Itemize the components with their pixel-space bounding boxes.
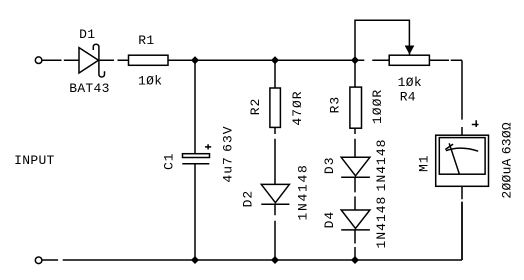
diode D1 (79, 44, 105, 77)
resistor R3 (354, 60, 356, 87)
svg-text:D2: D2 (241, 190, 256, 208)
svg-text:D3: D3 (322, 156, 337, 174)
svg-text:1N4148: 1N4148 (295, 163, 310, 220)
wire (42, 59, 79, 61)
svg-text:INPUT: INPUT (14, 153, 55, 168)
bottom rail wire (42, 202, 462, 260)
svg-text:47ØR: 47ØR (290, 90, 305, 125)
wire wiper loop (355, 20, 409, 60)
wire (100, 59, 129, 61)
node junction 5 (272, 257, 279, 264)
svg-text:1ØØR: 1ØØR (370, 89, 385, 124)
diode D3 (341, 157, 370, 177)
wire (355, 59, 389, 61)
svg-text:C1: C1 (162, 152, 177, 170)
node junction 6 (352, 257, 359, 264)
svg-text:2ØØuA 63ØΩ: 2ØØuA 63ØΩ (500, 122, 515, 199)
svg-text:D4: D4 (322, 211, 337, 229)
svg-text:R3: R3 (327, 96, 342, 114)
wire down to meter (461, 60, 463, 135)
potentiometer R4 wiper arrow (406, 46, 413, 53)
svg-text:M1: M1 (416, 154, 431, 172)
plus sign M1 (472, 120, 479, 127)
svg-text:D1: D1 (79, 27, 95, 42)
meter M1 (436, 135, 489, 186)
input terminal top (35, 57, 42, 64)
svg-text:1Øk: 1Øk (138, 74, 162, 89)
diode D2 (261, 184, 289, 204)
capacitor C1 (182, 60, 209, 260)
potentiometer R4 body (389, 55, 429, 65)
plus sign C1 (205, 144, 211, 149)
svg-text:1N4148 1N4148: 1N4148 1N4148 (374, 139, 389, 249)
node junction 1 (192, 57, 199, 64)
svg-text:4u7 63V: 4u7 63V (221, 125, 236, 182)
node junction 2 (272, 57, 279, 64)
node junction 3 (352, 57, 359, 64)
resistor R2 (274, 60, 276, 88)
input terminal bottom (35, 257, 42, 264)
node junction 4 (192, 257, 199, 264)
diode D4 (341, 210, 370, 230)
resistor R1 (129, 55, 169, 65)
wire meter bottom (461, 186, 463, 260)
svg-text:R4: R4 (400, 89, 416, 104)
svg-text:BAT43: BAT43 (69, 81, 110, 96)
svg-text:R2: R2 (248, 98, 263, 116)
wire pot right (429, 59, 462, 61)
svg-text:R1: R1 (138, 33, 154, 48)
svg-text:1Øk: 1Øk (398, 75, 422, 90)
wire (168, 59, 355, 61)
